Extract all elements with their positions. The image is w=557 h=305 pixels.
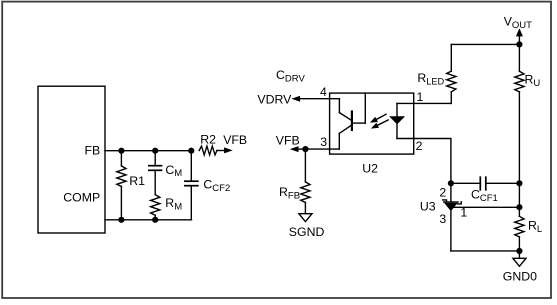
node VFB arrow xyxy=(290,146,299,152)
node CCF1 right junction xyxy=(516,180,522,186)
svg-text:2: 2 xyxy=(416,139,423,153)
wire VFB to pin 3 xyxy=(298,148,339,150)
svg-text:4: 4 xyxy=(320,85,327,99)
svg-text:VFB: VFB xyxy=(223,133,247,147)
svg-text:U2: U2 xyxy=(362,161,378,175)
svg-text:CCF1: CCF1 xyxy=(471,187,498,204)
svg-text:RFB: RFB xyxy=(279,185,300,202)
svg-text:1: 1 xyxy=(417,90,424,104)
wire FB output xyxy=(105,150,192,152)
node ground junction xyxy=(516,248,522,254)
svg-text:RU: RU xyxy=(525,73,541,90)
node VFB-RFB junction xyxy=(302,146,308,152)
LED D1 in U2 xyxy=(389,103,405,138)
svg-text:VOUT: VOUT xyxy=(504,15,532,32)
svg-text:R2: R2 xyxy=(200,133,216,147)
svg-text:R1: R1 xyxy=(129,174,145,188)
svg-text:3: 3 xyxy=(320,135,327,149)
svg-text:GND0: GND0 xyxy=(503,269,537,283)
svg-text:CM: CM xyxy=(165,163,182,179)
node VOUT arrow xyxy=(516,28,523,44)
svg-text:RLED: RLED xyxy=(417,71,444,87)
node FB-R1 junction xyxy=(118,148,124,154)
node divider junction xyxy=(516,204,522,210)
node VFB output arrow xyxy=(224,147,233,153)
ground GND0 xyxy=(513,251,526,266)
node CCF1 left junction xyxy=(448,180,454,186)
resistor RL xyxy=(515,207,524,251)
ground SGND xyxy=(299,214,312,222)
capacitor CCF1 xyxy=(451,177,520,190)
node bottom-RM junction xyxy=(152,217,158,223)
node bottom-R1 junction xyxy=(118,217,124,223)
wire pin 1 to RLED xyxy=(397,102,451,104)
svg-text:U3: U3 xyxy=(420,200,436,214)
svg-text:1: 1 xyxy=(460,206,467,220)
svg-text:COMP: COMP xyxy=(63,190,100,204)
op-amp U1 COMP block xyxy=(38,86,105,233)
resistor R2 xyxy=(199,146,225,155)
wire VDRV to pin 4 xyxy=(300,98,340,100)
svg-text:RL: RL xyxy=(528,218,542,235)
svg-text:SGND: SGND xyxy=(289,225,325,239)
resistor RU xyxy=(515,44,524,207)
transistor Q1 phototransistor in U2 xyxy=(339,93,365,149)
resistor R1 xyxy=(117,151,126,220)
node VDRV arrow xyxy=(291,96,300,102)
svg-text:FB: FB xyxy=(85,144,101,158)
svg-text:2: 2 xyxy=(439,186,446,200)
capacitor CM xyxy=(149,151,162,195)
resistor RM xyxy=(151,195,160,220)
svg-text:RM: RM xyxy=(165,196,182,213)
capacitor CCF2 xyxy=(185,151,198,220)
wire U3 reference to divider node xyxy=(453,206,520,208)
opto-coupler U2 box xyxy=(330,93,414,154)
svg-text:VDRV: VDRV xyxy=(257,92,292,106)
resistor RFB xyxy=(301,149,310,214)
shunt regulator U3 xyxy=(443,183,462,251)
node FB-CCF2 junction xyxy=(188,148,194,154)
svg-text:CDRV: CDRV xyxy=(276,68,305,85)
resistor RLED xyxy=(447,44,456,103)
wire pin 2 to U3 branch xyxy=(397,139,451,184)
wire U3 anode to ground node xyxy=(451,250,520,252)
wire COMP bottom return xyxy=(105,219,192,221)
svg-text:CCF2: CCF2 xyxy=(203,178,230,195)
node VOUT junction xyxy=(516,41,522,47)
light arrows from LED to transistor xyxy=(369,112,390,131)
node FB-CM junction xyxy=(152,148,158,154)
wire VOUT rail xyxy=(451,43,519,45)
svg-text:VFB: VFB xyxy=(276,134,300,148)
svg-text:3: 3 xyxy=(439,212,446,226)
